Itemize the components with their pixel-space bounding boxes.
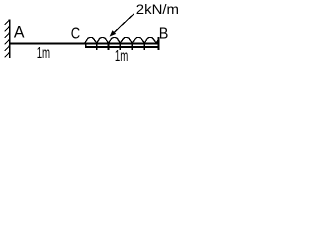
svg-text:A: A xyxy=(14,22,25,41)
fixed support wall at A xyxy=(9,19,11,58)
wall hatch 5 xyxy=(5,46,10,51)
tick 6 xyxy=(143,42,145,49)
tick 2 xyxy=(96,42,98,49)
wall hatch 4 xyxy=(5,39,10,44)
tick 4 xyxy=(119,42,121,49)
beam A to B xyxy=(9,43,160,45)
leader line to load label xyxy=(113,14,135,34)
svg-text:2kN/m: 2kN/m xyxy=(136,1,179,17)
tick 3 xyxy=(108,42,110,49)
wall hatch 3 xyxy=(5,33,10,38)
svg-text:1m: 1m xyxy=(115,48,128,65)
tick 5 xyxy=(131,42,133,49)
svg-text:B: B xyxy=(159,25,169,42)
end bar at B xyxy=(157,37,159,50)
svg-text:C: C xyxy=(71,26,80,43)
wall hatch 6 xyxy=(5,52,10,57)
tick at C xyxy=(85,43,87,48)
wall hatch 2 xyxy=(5,26,10,31)
lower chord line under loaded span xyxy=(85,46,159,48)
leader arrowhead xyxy=(110,30,117,36)
svg-text:1m: 1m xyxy=(37,45,50,62)
wall hatch 1 xyxy=(5,20,10,25)
